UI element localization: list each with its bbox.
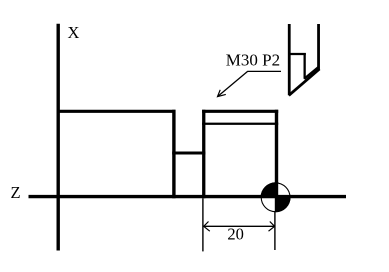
workpiece large cylinder top edge <box>57 110 176 113</box>
tool shank left edge <box>288 24 291 95</box>
svg-text:Z: Z <box>11 183 21 202</box>
X axis <box>57 24 60 251</box>
thread section right edge <box>275 110 278 212</box>
tool insert left edge <box>303 53 305 79</box>
dimension arrowhead left <box>204 222 210 232</box>
dimension arrowhead right <box>269 222 275 232</box>
Z axis <box>29 195 347 198</box>
svg-text:20: 20 <box>227 224 244 243</box>
leader landing line under label <box>247 70 281 72</box>
tool reference point symbol: bottom-right filled quadrant <box>276 197 291 212</box>
svg-text:M30 P2: M30 P2 <box>226 51 280 70</box>
workpiece large cylinder right shoulder <box>172 110 175 199</box>
svg-text:X: X <box>68 23 80 42</box>
dimension extension line right <box>274 212 276 250</box>
leader arrowhead <box>218 90 226 97</box>
dimension line <box>204 225 275 227</box>
thread section top edge <box>202 110 278 113</box>
tool insert top line <box>288 53 306 55</box>
thread minor diameter line <box>202 123 278 125</box>
dimension extension line left <box>202 199 204 252</box>
thread section left edge <box>202 110 205 199</box>
groove diameter line <box>172 151 205 154</box>
tool reference point symbol: circle <box>261 183 290 212</box>
tool outer cutting edge diagonal <box>289 69 320 95</box>
tool shank right edge <box>317 24 320 70</box>
tool reference point symbol: top-left filled quadrant <box>261 182 276 197</box>
symbol crosshair vertical (thread right edge through symbol) <box>275 182 278 212</box>
leader diagonal line <box>218 71 248 96</box>
symbol crosshair horizontal (Z axis through symbol) <box>261 195 290 198</box>
tool insert diagonal edge <box>304 67 319 79</box>
